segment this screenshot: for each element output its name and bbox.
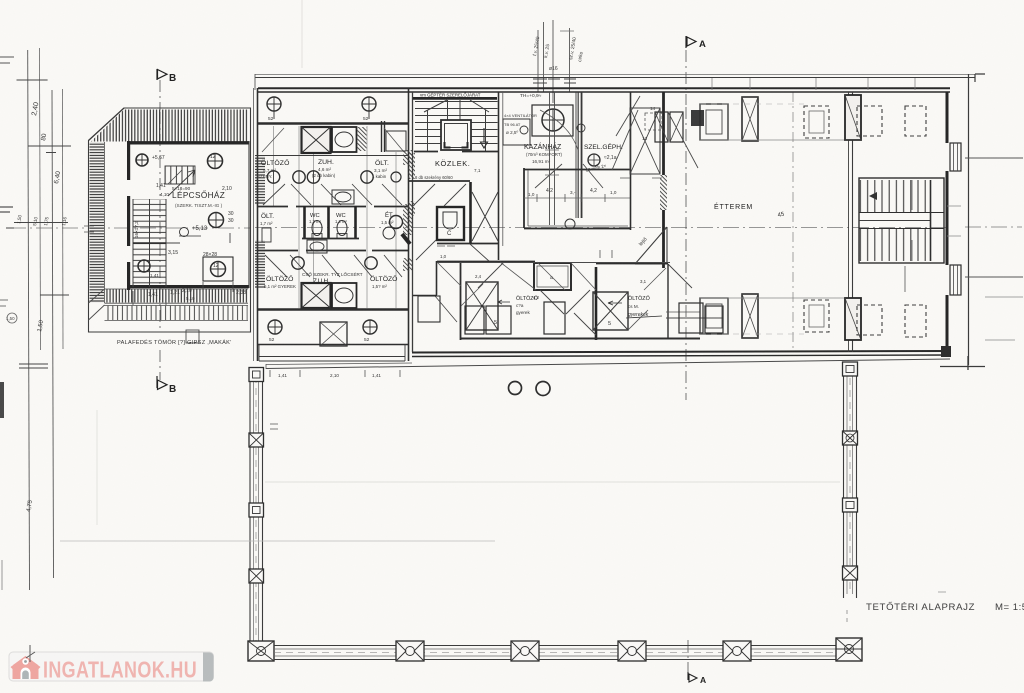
column pair x668 xyxy=(655,112,668,142)
right outer wall outer line xyxy=(412,92,414,352)
left band column y510 xyxy=(249,503,264,517)
roof top hatch band xyxy=(91,110,248,142)
boiler circle cross xyxy=(542,109,564,131)
bottom inner wall xyxy=(258,344,408,346)
flue pipe pair xyxy=(550,92,555,225)
section flag A bottom xyxy=(687,672,689,680)
right outer bottom corner mark xyxy=(940,356,985,370)
left small ticks outside xyxy=(84,226,94,232)
vent right cross xyxy=(362,97,376,119)
wall x662 xyxy=(662,92,665,268)
extra door swings center rooms xyxy=(437,262,666,330)
dim tick y80 xyxy=(17,79,48,81)
swing xyxy=(435,296,457,322)
small tick near left band xyxy=(270,424,278,429)
wall hatch mid right xyxy=(358,127,367,151)
bath box bottom xyxy=(332,283,357,308)
vent circle bottom left xyxy=(268,320,282,334)
dividing wall x848-860 with pillars xyxy=(852,92,854,352)
bottom band center dash xyxy=(274,652,838,654)
left wall hatch strip xyxy=(255,155,265,205)
column b2 xyxy=(486,306,511,334)
right band center dash xyxy=(849,366,851,594)
wc pan left xyxy=(312,221,322,236)
wall y318 right xyxy=(666,317,723,319)
left band center dash xyxy=(255,376,257,652)
wall right of kozlek xyxy=(498,92,500,260)
roof hip diagonal top-left xyxy=(89,108,125,141)
corner column bottom-left xyxy=(248,641,274,661)
dim tick y295 xyxy=(40,294,69,296)
left margin small mark x30 bottom xyxy=(26,645,34,662)
stair outline xyxy=(859,178,944,263)
left band lines xyxy=(250,370,263,658)
global horizontal centerline xyxy=(10,227,1022,228)
bottom box circle cross xyxy=(211,262,226,277)
bottomleft cross xyxy=(138,260,150,272)
right outer wall xyxy=(408,88,410,361)
wall y261 left part xyxy=(437,261,535,263)
level mark +5,13 xyxy=(180,228,189,237)
column b4 xyxy=(679,303,703,333)
wall line y122 xyxy=(258,122,408,125)
X-room right diagonals xyxy=(593,292,628,330)
mini flight border xyxy=(165,166,195,184)
stair arrow diagonal xyxy=(168,170,195,196)
stair mid rail line xyxy=(859,220,930,222)
roof left band inner edge xyxy=(104,142,106,303)
mid circle cross xyxy=(209,213,224,228)
vb left cross xyxy=(268,320,282,334)
small circle lower kazanhaz xyxy=(565,219,575,229)
watermark house icon xyxy=(11,656,41,679)
vertical ticks to outer line xyxy=(712,78,915,90)
stair side rails xyxy=(133,199,166,287)
main top wall xyxy=(258,87,950,89)
boiler circle xyxy=(542,109,564,131)
building-terrace junction line xyxy=(265,364,267,369)
top column c3 dashed xyxy=(804,106,829,138)
X-room right (shaft) xyxy=(593,292,628,330)
right thick wall xyxy=(946,92,949,352)
wc cubicle kozlek xyxy=(437,207,464,240)
right band column y573 xyxy=(843,566,858,580)
lepcsohaz right edge wall xyxy=(248,141,250,288)
arrow head xyxy=(869,192,877,200)
lepcsohaz left wall xyxy=(127,141,130,290)
door swing top strip xyxy=(262,128,404,152)
bottom column x737 xyxy=(723,641,751,661)
interior wall y312 stub xyxy=(666,311,700,313)
flue pipe ticks xyxy=(545,150,559,175)
wall line y155 xyxy=(258,155,408,157)
bath oval top xyxy=(335,132,353,147)
shaft room right of wc xyxy=(469,182,472,243)
wc cubicle fixture xyxy=(443,212,457,229)
left outer wall outer line xyxy=(253,88,255,361)
kozlek stair left flight xyxy=(415,100,441,150)
wall line y250 xyxy=(258,250,408,252)
roof bottom hatch band1 xyxy=(105,289,248,303)
dim row kazanhaz xyxy=(524,197,630,199)
top outer line (double) xyxy=(255,77,975,79)
kazanhaz inner room lines xyxy=(528,170,628,226)
ticks below middle block xyxy=(270,370,400,377)
door swings band2 xyxy=(265,255,402,277)
riser tick marks xyxy=(533,79,576,83)
right wall dark blob xyxy=(402,234,410,244)
row1 circle ticks xyxy=(274,172,368,183)
two circles on terrace xyxy=(509,382,522,395)
kozlek door swings xyxy=(413,184,490,262)
stair fan diagonals xyxy=(424,100,489,112)
top room diagonal marks xyxy=(630,108,660,174)
long wall x436 lower xyxy=(436,261,438,295)
stair landing rails xyxy=(859,213,944,229)
underline xyxy=(626,316,662,318)
stray line through logo xyxy=(26,645,35,662)
bottom box column xyxy=(203,257,233,281)
section flag A top xyxy=(685,36,687,48)
X-room left diagonals xyxy=(466,282,498,330)
right wc box top xyxy=(386,131,406,151)
house door xyxy=(21,668,31,680)
window top xyxy=(950,143,961,171)
szel room right wall xyxy=(630,92,632,230)
bottom column c1 xyxy=(700,298,728,334)
corner column bottom-right xyxy=(836,638,862,661)
bottom column x525 xyxy=(511,641,539,661)
faint terrace line xyxy=(60,540,495,542)
top plumbing riser lines xyxy=(538,20,570,103)
column circle mid xyxy=(209,213,224,228)
left band column y440 xyxy=(249,433,264,447)
small right wall hatch xyxy=(403,150,413,165)
bottom column c3 dashed xyxy=(804,300,829,332)
right band column y368 xyxy=(843,362,858,376)
kazanhaz room walls xyxy=(524,168,630,229)
stray mark above title xyxy=(938,591,946,593)
column b5 xyxy=(705,306,723,333)
dashed columns bottom xyxy=(857,305,882,335)
right band column y505 xyxy=(843,498,858,512)
X-room left (shaft) xyxy=(466,282,498,330)
column circle topleft xyxy=(136,154,148,166)
dim tick y365 xyxy=(19,364,48,368)
wc pan right tank xyxy=(337,234,347,239)
small ticks top rooms xyxy=(620,177,662,179)
misc dim ticks center xyxy=(437,246,612,258)
long bottom interior wall xyxy=(461,338,700,340)
lepcsohaz top wall xyxy=(127,141,249,144)
wall line y205 xyxy=(258,206,408,208)
kazanhaz inner box left xyxy=(503,119,530,145)
house window xyxy=(22,658,28,664)
faint vertical fold xyxy=(96,410,98,525)
big triangle slope right xyxy=(635,227,667,264)
extended wall y262 xyxy=(437,262,670,264)
tiny circle left edge xyxy=(7,313,17,323)
section flag B bottom xyxy=(156,376,158,388)
stair top mini flight xyxy=(165,166,195,184)
door swings center xyxy=(478,262,692,335)
top column c1 pair xyxy=(700,104,728,140)
kozlek top wall thick xyxy=(413,97,497,100)
block bottom left vertical xyxy=(259,344,405,361)
topright circle cross xyxy=(208,154,223,169)
right band lower dashes xyxy=(846,610,848,626)
wall line y309 xyxy=(258,308,408,311)
roof bottom-left hip xyxy=(89,289,105,320)
stair center box inner xyxy=(445,124,468,148)
kozlek stair right flight xyxy=(471,100,498,150)
vent circle top right xyxy=(362,97,376,111)
szel circle cross xyxy=(588,154,600,166)
stair arrow xyxy=(481,128,488,148)
left dimension line 3 xyxy=(52,90,54,578)
dim ext line bottom xyxy=(133,282,233,305)
dim tick y146 xyxy=(28,146,71,153)
window bottom xyxy=(950,265,961,295)
kozlek stair top mid flight xyxy=(441,100,471,120)
watermark bar xyxy=(9,652,214,681)
column pair diags xyxy=(655,112,683,142)
wc pan right xyxy=(337,221,347,236)
shaft X top diagonals xyxy=(302,127,331,153)
left dimension line 1 xyxy=(28,50,30,590)
box corner marks xyxy=(445,142,468,148)
left band column y576 xyxy=(249,569,264,583)
bottom box circle xyxy=(211,262,226,277)
stair inner wall L xyxy=(930,180,932,261)
dark corner blob bottom right xyxy=(941,346,951,357)
szel circle xyxy=(588,154,600,166)
bottom small box on band xyxy=(186,330,199,343)
interior door diag top xyxy=(168,170,182,184)
right band column y438 xyxy=(843,431,858,445)
bottom column c2 xyxy=(742,294,758,338)
bottom outer line building xyxy=(266,359,950,369)
etterem faint inner lines xyxy=(700,140,848,298)
roof outline xyxy=(89,108,251,332)
bottom-left tub xyxy=(307,240,327,253)
door swing diagonals band1 xyxy=(263,184,402,205)
stair flight lower xyxy=(133,243,166,287)
dashed columns top xyxy=(857,106,882,136)
right edge stub lines xyxy=(965,158,1023,277)
hatch wall borders xyxy=(576,92,582,218)
dim tick cluster y222 xyxy=(6,223,68,229)
stair walk line + arrow xyxy=(905,180,912,292)
section flag B top xyxy=(156,69,158,80)
wall below stair xyxy=(414,151,498,153)
wc core mid wall xyxy=(327,206,330,238)
vb right cross xyxy=(363,320,377,334)
roof left hatch band xyxy=(90,142,105,303)
shaft room diagonals xyxy=(472,192,498,241)
lepcsohaz bottom wall xyxy=(127,285,249,288)
window sill marks xyxy=(947,206,961,236)
shaft X-box top xyxy=(302,127,331,153)
kazanhaz door swing xyxy=(535,164,603,188)
column circle right wall xyxy=(390,216,403,229)
riser top tick xyxy=(560,30,574,32)
plumbing verticals xyxy=(274,126,397,308)
column circle topleft cross xyxy=(136,154,148,166)
dark corner box xyxy=(691,110,704,126)
fixture circles row2 xyxy=(292,257,304,269)
section line B vertical xyxy=(159,80,161,380)
shelf wall y180 xyxy=(409,180,470,182)
left dimension line 4 xyxy=(61,89,64,349)
white box room a xyxy=(534,263,571,290)
rooms right of szel: top room with diagonals xyxy=(630,108,660,174)
small circles beside boiler xyxy=(520,126,528,134)
et fixture xyxy=(383,227,395,239)
left low column pair near kozlek xyxy=(418,296,440,322)
stair lower flight xyxy=(859,229,930,261)
fixture circles row1 xyxy=(267,171,279,183)
vertical wall x596 xyxy=(595,267,598,340)
wc core left wall xyxy=(303,206,306,238)
vent circle bottom right xyxy=(363,320,377,334)
shaft X-box bottom xyxy=(302,283,331,308)
hatched wall right of kazanhaz xyxy=(576,92,582,140)
landing wall mid xyxy=(133,242,166,244)
column b3 xyxy=(544,302,565,334)
left dimension line 2 xyxy=(40,48,41,350)
dashed square room14 xyxy=(645,113,662,130)
level mark line xyxy=(179,235,201,237)
stair upper flight xyxy=(859,180,930,212)
vent circle top left xyxy=(267,97,281,111)
arrow right label xyxy=(608,301,622,305)
left wall hatch pieces xyxy=(408,153,415,179)
stair flight rails xyxy=(428,100,486,152)
top outer left end vertical xyxy=(254,74,256,90)
interior wall stub xyxy=(166,233,230,243)
shaft X bottom diagonals xyxy=(302,283,331,308)
mid tub xyxy=(332,190,354,204)
roof bottom band separators xyxy=(105,289,249,321)
top-right outer corner xyxy=(969,74,986,365)
vent circle top left cross xyxy=(267,97,281,119)
bottom band lines xyxy=(274,646,838,660)
bath box top xyxy=(332,127,357,152)
scan artifact marks left edge xyxy=(0,57,14,63)
stair flight upper xyxy=(133,199,166,243)
wall x662 hatch xyxy=(660,175,667,210)
pillar top on wall xyxy=(845,95,861,140)
watermark end cap xyxy=(203,653,214,682)
wc pan left tank xyxy=(312,234,322,239)
curve into hatch xyxy=(540,110,578,150)
stair center box xyxy=(441,120,471,150)
wall y295 stub xyxy=(413,295,437,297)
bath oval bottom xyxy=(335,288,353,303)
extra slope diagonals top rooms xyxy=(612,96,698,170)
bottom column x632 xyxy=(618,641,646,661)
arrow to label xyxy=(498,300,510,304)
right band lines xyxy=(844,362,857,598)
bottom outer lines of block xyxy=(259,357,405,362)
main bottom wall xyxy=(412,351,950,353)
column circle topright xyxy=(208,154,223,169)
dim ticks xyxy=(537,194,605,202)
section line A vertical xyxy=(686,50,688,672)
top column c2 (wall pillar) xyxy=(742,97,758,141)
boiler box xyxy=(532,105,573,136)
bottom wall column blob row (dark) xyxy=(320,322,347,346)
column circle bottomleft xyxy=(138,260,150,272)
wall x668 xyxy=(667,264,669,338)
basin left room xyxy=(262,228,271,242)
pillar bottom on wall xyxy=(845,298,861,340)
box a inner xyxy=(537,266,568,287)
left band column y374 xyxy=(249,368,264,382)
wc core right wall xyxy=(354,206,357,238)
left outer wall xyxy=(257,88,259,361)
bottom column x410 xyxy=(396,641,424,661)
roof bottom hatch band2 xyxy=(105,306,248,321)
column b1 xyxy=(465,306,484,334)
vertical wall x460 xyxy=(460,261,462,340)
wall y261 right part xyxy=(596,263,668,265)
ridge centerline etterem xyxy=(792,92,794,352)
wall y243 xyxy=(437,243,499,245)
